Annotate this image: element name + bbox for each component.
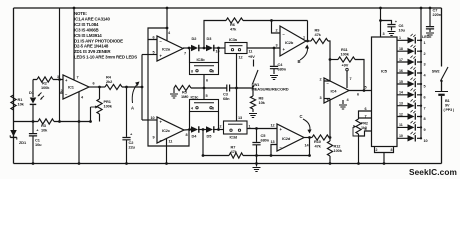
diode D5 bbox=[206, 126, 213, 133]
node A vertical bbox=[141, 55, 143, 121]
svg-text:7: 7 bbox=[184, 52, 186, 56]
LED 7 bbox=[397, 105, 421, 107]
resistor R11 bbox=[330, 59, 338, 61]
svg-text:10: 10 bbox=[424, 139, 428, 143]
svg-text:2: 2 bbox=[424, 52, 426, 56]
svg-text:8: 8 bbox=[391, 148, 393, 152]
svg-text:3: 3 bbox=[319, 96, 321, 100]
svg-text:3: 3 bbox=[275, 44, 277, 48]
wire IC3c bypass legs bbox=[190, 112, 219, 130]
resistor R8 bbox=[252, 88, 254, 96]
wire IC2a pin4 supply bbox=[166, 8, 168, 41]
resistor R9 bbox=[311, 38, 328, 43]
svg-text:13: 13 bbox=[399, 102, 403, 106]
svg-text:6: 6 bbox=[206, 79, 208, 83]
svg-text:IC3a: IC3a bbox=[229, 37, 238, 42]
svg-text:IC2a: IC2a bbox=[162, 47, 171, 52]
svg-text:IC1: IC1 bbox=[68, 85, 75, 90]
resistor R7 bbox=[229, 153, 243, 158]
diode D2 bbox=[198, 47, 206, 49]
resistor R3 bbox=[38, 119, 54, 124]
svg-text:9: 9 bbox=[424, 128, 426, 132]
svg-text:IC1,4 ARE CA3140: IC1,4 ARE CA3140 bbox=[74, 16, 110, 21]
wire to IC2d pin13 bbox=[271, 145, 277, 156]
svg-text:6: 6 bbox=[357, 93, 359, 97]
wire +9V top rail bbox=[14, 7, 442, 9]
resistor R10 bbox=[312, 135, 329, 140]
capacitor C4 bbox=[273, 48, 275, 66]
wire to IC2c pin10 bbox=[142, 119, 157, 121]
svg-text:5: 5 bbox=[152, 51, 154, 55]
svg-text:12: 12 bbox=[399, 112, 403, 116]
svg-text:10: 10 bbox=[399, 134, 403, 138]
svg-text:100k: 100k bbox=[104, 104, 113, 109]
svg-text:18: 18 bbox=[399, 47, 403, 51]
svg-text:220n: 220n bbox=[433, 12, 442, 17]
svg-text:IC2b: IC2b bbox=[285, 40, 294, 45]
svg-text:IC2c: IC2c bbox=[162, 128, 171, 133]
wire lower feedback bus bbox=[203, 155, 310, 157]
LED 1 bbox=[397, 39, 421, 41]
diode D3 bbox=[206, 45, 213, 52]
svg-text:IC2d: IC2d bbox=[282, 136, 291, 141]
svg-text:2: 2 bbox=[376, 148, 378, 152]
svg-text:1M0: 1M0 bbox=[181, 94, 188, 99]
wire D4/D5 mid to lower bus bbox=[202, 130, 204, 156]
svg-text:NOTE:: NOTE: bbox=[74, 11, 88, 16]
wire R6 branch bbox=[204, 21, 308, 49]
svg-text:1k0: 1k0 bbox=[361, 126, 367, 130]
svg-text:IC5 IS LM3914: IC5 IS LM3914 bbox=[74, 33, 102, 38]
wire IC5 pin3 supply bbox=[380, 8, 382, 37]
svg-text:13: 13 bbox=[238, 116, 242, 120]
svg-text:7: 7 bbox=[77, 76, 79, 80]
op-amp IC2c bbox=[157, 117, 184, 143]
svg-text:47k: 47k bbox=[231, 149, 238, 154]
svg-text:8: 8 bbox=[186, 133, 188, 137]
wire IC3a ctrl pin12 bbox=[236, 54, 238, 89]
svg-text:10k: 10k bbox=[259, 100, 266, 105]
svg-text:10u: 10u bbox=[399, 28, 406, 33]
svg-text:SeekIC.com: SeekIC.com bbox=[409, 167, 457, 177]
LED 5 bbox=[397, 83, 421, 85]
svg-text:6: 6 bbox=[93, 82, 95, 86]
svg-text:1: 1 bbox=[424, 41, 426, 45]
resistor R4 bbox=[105, 84, 122, 89]
resistor R5 bbox=[174, 85, 191, 90]
wire to IC2a pin5 bbox=[142, 54, 157, 56]
ground R5 bbox=[173, 88, 175, 93]
svg-text:7: 7 bbox=[364, 115, 366, 119]
svg-text:C: C bbox=[300, 114, 303, 119]
wire ctrl bus to IC3d pin13 bbox=[236, 88, 238, 121]
wire IC3c ctrl pin5 bbox=[203, 88, 205, 100]
svg-text:D1 IS ANY PHOTODIODE: D1 IS ANY PHOTODIODE bbox=[74, 38, 123, 43]
svg-text:15: 15 bbox=[399, 80, 403, 84]
svg-text:2: 2 bbox=[220, 125, 222, 129]
wire R9 to junction bbox=[328, 41, 330, 60]
svg-text:11: 11 bbox=[249, 50, 253, 54]
wire IC5 bottom pins to 0V bbox=[375, 147, 394, 153]
wire IC2b feedback bbox=[307, 21, 309, 42]
svg-text:5: 5 bbox=[424, 85, 426, 89]
wire IC1 pin4 to 0V bbox=[78, 92, 80, 164]
svg-text:8: 8 bbox=[191, 70, 193, 74]
svg-text:3: 3 bbox=[212, 107, 214, 111]
wire battery branch bbox=[441, 8, 443, 67]
wire left supply branch bbox=[13, 8, 15, 164]
LED 4 bbox=[397, 72, 421, 74]
diode D4 bbox=[198, 129, 206, 131]
svg-text:B: B bbox=[298, 59, 301, 64]
svg-text:6: 6 bbox=[424, 95, 426, 99]
svg-text:680n: 680n bbox=[278, 67, 287, 72]
wire IC2b pin2 from R6 node bbox=[272, 21, 281, 34]
svg-text:14: 14 bbox=[399, 91, 403, 95]
svg-text:10: 10 bbox=[150, 116, 154, 120]
svg-text:3: 3 bbox=[424, 63, 426, 67]
wire IC3a out to IC2b pin3 bbox=[247, 47, 280, 49]
svg-text:IC4: IC4 bbox=[331, 89, 338, 94]
svg-text:1: 1 bbox=[249, 125, 251, 129]
wire IC1 pin7 supply bbox=[73, 8, 75, 80]
svg-text:LEDS 1-10 ARE 3mm RED LEDS: LEDS 1-10 ARE 3mm RED LEDS bbox=[74, 55, 137, 60]
svg-text:+9V: +9V bbox=[248, 54, 255, 59]
wire control bus bbox=[191, 87, 253, 89]
svg-text:11: 11 bbox=[399, 123, 403, 127]
LED 6 bbox=[397, 94, 421, 96]
wire IC2b output bbox=[306, 40, 311, 42]
analog switch IC3a bbox=[225, 43, 247, 54]
svg-text:IC5: IC5 bbox=[381, 69, 388, 74]
svg-text:ZD1 IS 3V9 ZENER: ZD1 IS 3V9 ZENER bbox=[74, 49, 111, 54]
svg-text:D2-5 ARE 1N4148: D2-5 ARE 1N4148 bbox=[74, 44, 109, 49]
svg-text:7: 7 bbox=[424, 106, 426, 110]
node A arrow bbox=[132, 84, 137, 103]
svg-text:MEASURE/RECORD: MEASURE/RECORD bbox=[252, 87, 289, 92]
ground IC4 pin4 bbox=[342, 100, 344, 104]
wire lower-left node bbox=[14, 121, 91, 123]
svg-text:A: A bbox=[131, 106, 134, 111]
LED 8 bbox=[397, 116, 421, 118]
svg-text:10u: 10u bbox=[35, 142, 42, 147]
wire IC2d output bbox=[304, 137, 312, 139]
svg-text:22u: 22u bbox=[129, 145, 136, 150]
LED 9 bbox=[397, 126, 421, 128]
svg-text:10k: 10k bbox=[41, 128, 48, 133]
svg-text:IC3b: IC3b bbox=[197, 57, 206, 62]
svg-text:9: 9 bbox=[152, 136, 154, 140]
svg-text:2: 2 bbox=[60, 89, 62, 93]
svg-text:1: 1 bbox=[399, 36, 401, 40]
wire IC2a feedback bracket bbox=[148, 28, 167, 40]
svg-text:680n: 680n bbox=[261, 138, 270, 143]
potentiometer PR2 bbox=[359, 111, 372, 119]
svg-text:47k: 47k bbox=[230, 27, 237, 32]
svg-text:3: 3 bbox=[383, 32, 385, 36]
svg-text:( PP3 ): ( PP3 ) bbox=[444, 108, 455, 112]
wire IC1 pin2 stub bbox=[60, 92, 64, 94]
svg-text:LED: LED bbox=[422, 35, 430, 39]
wire IC2d feedback bbox=[309, 138, 311, 156]
capacitor C3 bbox=[227, 85, 230, 92]
svg-text:47k: 47k bbox=[315, 144, 322, 149]
capacitor C7 bbox=[429, 8, 431, 26]
wire IC3b bypass legs bbox=[190, 48, 219, 63]
potentiometer PR1 bbox=[99, 87, 101, 99]
svg-text:10k: 10k bbox=[18, 102, 25, 107]
svg-text:100k: 100k bbox=[334, 148, 343, 153]
svg-text:SW2: SW2 bbox=[432, 70, 440, 74]
battery B1 bbox=[435, 91, 448, 93]
svg-text:IC2 IS TL084: IC2 IS TL084 bbox=[74, 22, 99, 27]
op-amp IC4 bbox=[324, 78, 349, 103]
svg-text:3: 3 bbox=[57, 75, 59, 79]
svg-text:1: 1 bbox=[303, 36, 305, 40]
wire IC1 output bbox=[89, 86, 105, 88]
svg-text:4: 4 bbox=[191, 107, 193, 111]
svg-text:2k2: 2k2 bbox=[106, 79, 113, 84]
svg-text:9V: 9V bbox=[445, 104, 450, 108]
op-amp IC2a bbox=[157, 36, 183, 61]
svg-text:47k: 47k bbox=[315, 32, 322, 37]
op-amp IC1 bbox=[63, 75, 89, 99]
capacitor C1 bbox=[32, 122, 34, 134]
svg-text:100k: 100k bbox=[41, 85, 50, 90]
node B arrow bbox=[300, 48, 308, 61]
capacitor C6 bbox=[381, 21, 392, 24]
svg-text:6: 6 bbox=[364, 107, 366, 111]
resistor R1 bbox=[11, 95, 16, 110]
svg-text:IC3c: IC3c bbox=[191, 95, 200, 100]
op-amp IC2d bbox=[277, 124, 304, 151]
svg-text:68n: 68n bbox=[223, 96, 230, 101]
ground tap on 0V rail bbox=[256, 156, 258, 167]
photodiode D1 bbox=[32, 80, 34, 98]
svg-text:B1: B1 bbox=[445, 99, 450, 103]
svg-text:17: 17 bbox=[399, 58, 403, 62]
wire IC3d out to IC2d pin12 bbox=[247, 128, 277, 130]
svg-text:8: 8 bbox=[424, 117, 426, 121]
switch SW1 bbox=[253, 60, 255, 67]
resistor R6 bbox=[226, 18, 243, 23]
resistor R2 bbox=[33, 79, 63, 81]
wire IC2a output bbox=[183, 47, 191, 49]
svg-text:+9V: +9V bbox=[342, 62, 349, 67]
svg-text:11: 11 bbox=[169, 140, 173, 144]
svg-text:ZD1: ZD1 bbox=[19, 140, 27, 145]
wire IC5 pin4 bbox=[359, 131, 372, 136]
analog switch IC3d bbox=[224, 121, 248, 134]
op-amp IC2b bbox=[280, 26, 306, 56]
svg-text:6: 6 bbox=[152, 36, 154, 40]
resistor R12 bbox=[329, 138, 331, 142]
LED 2 bbox=[397, 50, 421, 52]
switch SW2 bbox=[441, 67, 449, 81]
wire IC2c pin11 to 0V bbox=[166, 139, 168, 164]
svg-text:13: 13 bbox=[270, 140, 274, 144]
wire inverting bus down to IC2c bbox=[148, 40, 189, 147]
wire R9 junction to IC4 pin2 bbox=[324, 60, 330, 82]
svg-text:7: 7 bbox=[350, 77, 352, 81]
capacitor C2 bbox=[126, 87, 128, 137]
wire LED anode bus bbox=[420, 8, 422, 138]
analog switch IC3b bbox=[190, 63, 219, 75]
svg-text:9: 9 bbox=[212, 70, 214, 74]
LED 3 bbox=[397, 61, 421, 63]
wire IC1 input rail bbox=[59, 8, 61, 122]
wire IC4 output to IC5 pin5 bbox=[349, 90, 372, 92]
wire IC4 pin3 from R10 node bbox=[324, 98, 330, 100]
svg-text:16: 16 bbox=[399, 69, 403, 73]
svg-text:IC3d: IC3d bbox=[230, 136, 238, 140]
IC5 LM3914 bbox=[372, 37, 398, 147]
LED 10 bbox=[397, 137, 421, 139]
svg-text:12: 12 bbox=[270, 124, 274, 128]
node C arrow bbox=[303, 119, 310, 131]
zener ZD1 bbox=[10, 130, 17, 137]
svg-text:100k: 100k bbox=[341, 52, 350, 57]
svg-text:2: 2 bbox=[319, 78, 321, 82]
svg-text:12: 12 bbox=[239, 56, 243, 60]
wire IC3b ctrl pin6 bbox=[203, 75, 205, 89]
svg-text:5: 5 bbox=[206, 94, 208, 98]
analog switch IC3c bbox=[190, 100, 219, 112]
capacitor C5 bbox=[256, 129, 258, 142]
svg-text:5: 5 bbox=[364, 86, 366, 90]
wire 0V bottom rail bbox=[14, 163, 442, 165]
wire IC2c output bbox=[184, 129, 191, 132]
svg-text:IC3 IS 4066B: IC3 IS 4066B bbox=[74, 27, 99, 32]
svg-text:2: 2 bbox=[275, 29, 277, 33]
